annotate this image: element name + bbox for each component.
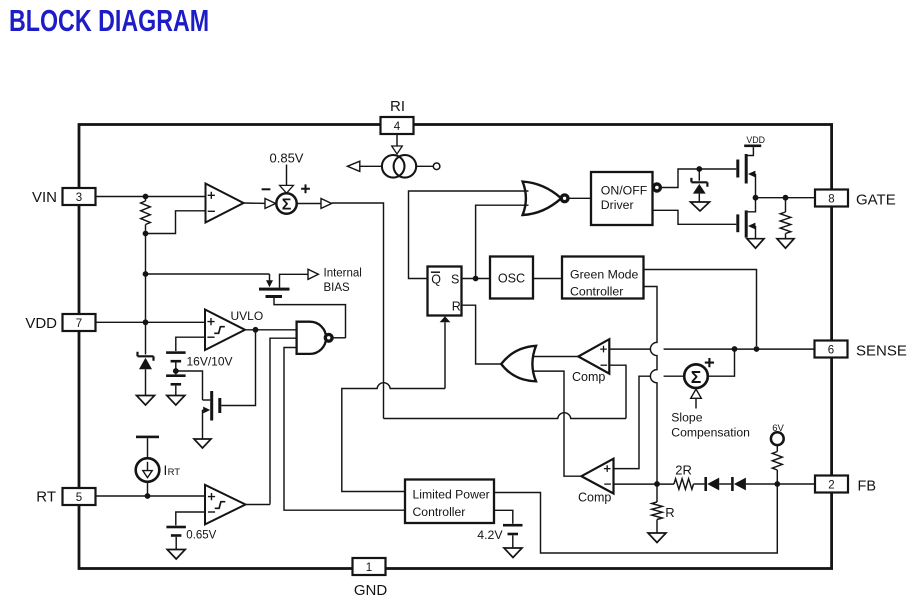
pin 8 GATE (815, 190, 848, 207)
VDD rail bar (744, 145, 761, 148)
NAND output bubble (325, 334, 332, 341)
Comp2 + marker (604, 465, 611, 472)
svg-text:BLOCK DIAGRAM: BLOCK DIAGRAM (9, 3, 209, 38)
pin 1 GND (353, 558, 386, 575)
ground (M3) (194, 439, 211, 448)
svg-text:R: R (665, 505, 674, 520)
svg-text:BIAS: BIAS (324, 282, 351, 294)
resistor gate pulldown (785, 198, 787, 212)
zener Z2 bar (691, 178, 707, 187)
svg-text:VIN: VIN (32, 189, 57, 206)
svg-text:0.65V: 0.65V (186, 530, 216, 542)
wire GMC to sense net (644, 270, 757, 347)
battery 0.65V bars (166, 526, 186, 529)
transistor M1 gate bar (736, 160, 739, 178)
wire Z2 to ground (698, 194, 700, 202)
terminal circle (433, 163, 440, 170)
block Limited Power Controller (405, 480, 494, 524)
node divider tap (143, 231, 149, 237)
svg-text:Slope: Slope (671, 411, 702, 425)
op-amp A1 + marker (208, 192, 215, 199)
wire 0.85V down arrow shaft (286, 165, 288, 186)
wire D1 to D2 (719, 483, 731, 485)
wire Qbar to NOR input 1 (409, 191, 529, 279)
wire Comp2 - / FB line left (614, 483, 675, 485)
wire divider tap down to VDD net (145, 234, 147, 275)
wire Comp1 - to S1 threshold (hop at 564) (384, 365, 627, 418)
node sense-summer (732, 346, 738, 352)
NOR output bubble (561, 195, 568, 202)
svg-text:Comp: Comp (578, 491, 611, 505)
comparator Comp2 (581, 459, 613, 494)
UVLO + marker (207, 318, 214, 325)
resistor 2R (674, 479, 694, 490)
block OSC (490, 257, 533, 299)
svg-text:16V/10V: 16V/10V (187, 355, 233, 369)
wire UVLO out down to M3 gate (221, 330, 255, 406)
IRT arrow (147, 462, 149, 471)
wire S2 left to Comp2 + (hop at 657) (614, 376, 685, 468)
transistor M2 channel bar (745, 210, 748, 237)
resistor 6V pullup (776, 445, 778, 452)
svg-text:SENSE: SENSE (856, 342, 907, 359)
op-amp A1 - marker (208, 210, 215, 212)
node FB-6V (774, 481, 780, 487)
diode D1 (704, 477, 707, 491)
wire VDD to M1 drain (748, 147, 754, 155)
svg-text:GND: GND (354, 582, 388, 599)
wire IRT to RT line (147, 482, 149, 496)
wire Comp2 output to OR input 2 (533, 371, 582, 476)
svg-text:7: 7 (76, 318, 82, 330)
ground (M2) (747, 239, 764, 249)
ground (Z1) (137, 396, 155, 406)
comparator C3 (RT) (205, 485, 246, 525)
comparator Comp1 (578, 339, 609, 373)
svg-text:4: 4 (394, 121, 401, 133)
arrow into summer S1 (265, 199, 276, 209)
Comp1 - marker (601, 364, 608, 366)
ground (battery 16V) (167, 396, 185, 406)
transistor M4 channel bar (259, 288, 290, 291)
wire summer S2 right to sense (708, 349, 735, 376)
arrow flip-flop bottom input (440, 316, 451, 322)
wire M4 source entry (269, 274, 271, 281)
arrow RI down head (392, 146, 403, 154)
source 6V circle (771, 432, 784, 445)
svg-text:Compensation: Compensation (671, 425, 750, 439)
current source IRT circle (136, 458, 160, 482)
node battery tap (173, 368, 179, 374)
wire battery tap to M3 drain (176, 371, 203, 400)
svg-text:UVLO: UVLO (231, 309, 264, 323)
wire NAND output up (332, 337, 345, 339)
OR gate body (501, 346, 536, 382)
Comp1 + marker (600, 346, 607, 353)
C3 + marker (208, 493, 215, 500)
svg-text:Driver: Driver (601, 198, 634, 212)
wire RT pin to comparator + (96, 495, 206, 497)
svg-text:Comp: Comp (572, 370, 605, 384)
wire driver top output to M1 gate (661, 169, 737, 188)
battery 16V/10V bars (166, 351, 186, 354)
wire node down to VDD line (145, 274, 147, 322)
wire NAND input 2 (270, 338, 297, 504)
arrow summer S1 output (321, 199, 332, 209)
wire Comp1 output to OR (533, 356, 579, 358)
svg-text:R: R (452, 299, 461, 313)
current source mirror circles (382, 155, 405, 178)
wire A1 output to summer (244, 202, 266, 204)
pin 3 VIN (63, 188, 96, 205)
summer S1 minus sign (262, 188, 271, 190)
summer S2 plus sign (705, 358, 714, 367)
C3 - marker (208, 511, 215, 513)
pin 6 SENSE (815, 341, 848, 358)
svg-text:GATE: GATE (856, 191, 896, 208)
wire S1 out to comp1 - (down at x=383.5) (332, 203, 384, 419)
UVLO hysteresis (214, 327, 225, 334)
svg-text:S: S (451, 272, 459, 286)
wire Z1 to ground (145, 369, 147, 395)
wire divider tap to op-amp - input (146, 211, 206, 234)
resistor divider R (VIN) (145, 197, 147, 234)
arrow current source left (347, 161, 359, 171)
wire M4 gate to NAND output (274, 298, 346, 338)
svg-text:Σ: Σ (691, 367, 702, 387)
wire SENSE line (609, 348, 814, 350)
svg-text:Σ: Σ (282, 196, 292, 213)
summer S1 circle (276, 193, 296, 213)
UVLO - marker (207, 336, 214, 338)
wire C3 - to 0.65V battery (176, 512, 206, 525)
svg-text:Q: Q (431, 272, 441, 286)
ground (0.65V) (167, 550, 185, 560)
zener Z2 diode (693, 184, 706, 194)
wire battery internals (175, 363, 177, 396)
svg-text:Controller: Controller (413, 505, 466, 519)
wire M4 drain to internal bias (280, 274, 309, 287)
transistor M4 gate bar (266, 295, 283, 298)
wire OSC to GMC (533, 278, 562, 280)
node UVLO output (253, 327, 259, 333)
node bias branch (143, 271, 149, 277)
NAND gate body (297, 322, 326, 354)
IC boundary frame (79, 125, 832, 569)
wire FB node down to LPC return (494, 484, 777, 553)
svg-text:VDD: VDD (25, 315, 57, 332)
wire node to internal-bias FET source (146, 273, 270, 275)
wire VDD node down to zener (145, 322, 147, 354)
svg-text:5: 5 (76, 492, 82, 504)
wire M3 drain stub (203, 399, 211, 401)
svg-text:VDD: VDD (746, 135, 765, 145)
node gate drive (753, 195, 759, 201)
svg-text:Internal: Internal (324, 268, 362, 280)
comparator UVLO (205, 310, 245, 351)
wire 4.2V to ground (512, 535, 514, 548)
wire R input from OR gate (462, 305, 502, 364)
node VIN divider top (143, 194, 149, 200)
wire M2 drain (748, 198, 756, 212)
transistor M1 channel bar (745, 154, 748, 184)
Comp2 - marker (604, 483, 611, 485)
svg-text:2R: 2R (675, 463, 692, 478)
battery 4.2V bars (503, 524, 523, 527)
ground (4.2V) (504, 548, 522, 558)
svg-text:Green Mode: Green Mode (570, 268, 639, 282)
wire rail to IRT (147, 438, 149, 458)
arrow slope comp into S2 (695, 398, 697, 408)
svg-text:0.85V: 0.85V (270, 151, 304, 166)
wire M1 source to gate node (754, 174, 756, 198)
svg-text:3: 3 (76, 192, 82, 204)
wire UVLO - to battery (176, 337, 205, 351)
svg-text:RT: RT (168, 467, 181, 478)
transistor M3 channel bar (210, 391, 213, 421)
pin 7 VDD (63, 314, 96, 331)
svg-text:RI: RI (390, 98, 405, 115)
arrow M4 source (down) (266, 280, 273, 287)
svg-text:OSC: OSC (498, 271, 525, 285)
svg-text:Controller: Controller (570, 284, 623, 298)
node S-OSC junction (473, 276, 479, 282)
svg-text:FB: FB (858, 478, 877, 494)
wire arrow to circles (360, 165, 382, 167)
wire gate node to GATE pin (756, 197, 816, 199)
wire VDD pin to UVLO + (96, 321, 205, 323)
node RT (145, 493, 151, 499)
transistor M3 gate bar (218, 398, 221, 413)
transistor M2 gate bar (736, 214, 739, 232)
ground (Z2) (691, 202, 710, 211)
summer S1 plus sign (301, 184, 310, 193)
arrow M1 source (748, 171, 756, 178)
wire NOR input 2 riser (476, 205, 529, 278)
svg-text:RT: RT (36, 489, 56, 506)
flip-flop box (428, 267, 462, 316)
node FB divider (654, 481, 660, 487)
node gate resistor (783, 195, 789, 201)
wire arrow RI pin down (396, 134, 398, 147)
wire NOR output to driver (568, 197, 591, 199)
svg-text:2: 2 (828, 479, 834, 491)
wire D2 to FB pin (746, 483, 815, 485)
wire circles to terminal (416, 165, 433, 167)
diode D2 (731, 477, 734, 491)
driver output bubble (653, 184, 660, 191)
wire driver bottom output to M2 gate (653, 210, 737, 224)
block Green Mode Controller (562, 257, 644, 299)
arrow M2 source (748, 223, 756, 230)
node VDD/zener (143, 319, 149, 325)
resistor R to ground (FB) (656, 484, 658, 502)
wire VIN pin to op-amp + input (96, 196, 205, 198)
wire M3 source to ground (202, 410, 205, 439)
pin 5 RT (63, 488, 96, 505)
svg-text:ON/OFF: ON/OFF (601, 184, 648, 198)
wire 0.65V to ground (175, 537, 177, 550)
wire NAND input 3 (284, 348, 405, 511)
svg-text:6: 6 (828, 344, 834, 356)
node sense-GMC (754, 346, 760, 352)
op-amp A1 (VIN sense) (206, 184, 244, 223)
wire GMC to FB divider (with hops) (644, 287, 658, 485)
zener Z1 diode (139, 358, 152, 370)
ground (FB divider) (648, 533, 666, 543)
svg-text:8: 8 (828, 193, 834, 205)
ground (gate pulldown) (777, 239, 794, 249)
C3 hysteresis (215, 502, 226, 509)
wire FF bottom from LPC (342, 322, 445, 491)
svg-text:Limited Power: Limited Power (413, 487, 490, 501)
wire UVLO output (245, 329, 296, 331)
current source IRT rail bar (136, 436, 159, 439)
NOR gate body (523, 182, 562, 215)
node zener junction (696, 166, 702, 172)
wire LPC to 4.2V (494, 510, 513, 524)
svg-text:4.2V: 4.2V (477, 528, 503, 542)
zener Z1 bar (138, 352, 154, 361)
arrow 0.85V into summer (280, 185, 294, 193)
wire zener Z2 top (698, 169, 700, 181)
svg-text:1: 1 (366, 562, 372, 574)
pin 2 FB (815, 476, 848, 493)
arrow M3 source (203, 407, 210, 414)
wire S to OSC (462, 278, 491, 280)
wire summer S1 output (297, 203, 321, 205)
arrow internal bias (308, 269, 318, 279)
block ON/OFF Driver (591, 172, 653, 225)
wire C3 output to NAND input 2 (246, 503, 271, 506)
pin 4 RI (381, 117, 414, 134)
summer S2 circle (684, 364, 708, 388)
wire M2 source to ground (754, 226, 756, 239)
wire 2R to diode (694, 483, 705, 485)
